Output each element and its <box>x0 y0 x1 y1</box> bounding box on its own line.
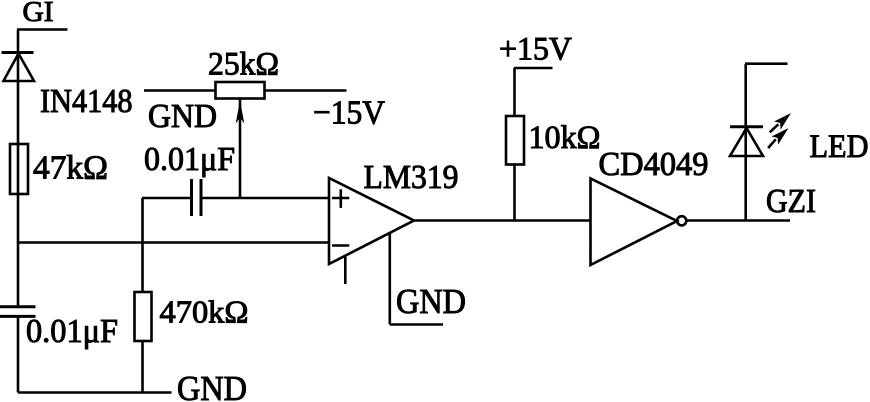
op-amp U1 LM319 <box>329 159 459 264</box>
svg-text:GND: GND <box>177 369 247 402</box>
resistor R1 47k <box>10 144 108 194</box>
wire LED branch <box>744 64 747 221</box>
LED light arrow upper <box>770 113 791 132</box>
wire pot left to GND <box>144 89 216 92</box>
svg-text:LED: LED <box>810 129 869 165</box>
wire pot right to -15V <box>265 89 347 92</box>
op-amp ground pin <box>390 233 466 325</box>
diode D1 IN4148 <box>2 53 133 121</box>
svg-text:−15V: −15V <box>313 95 385 132</box>
wire plus-input right <box>203 197 330 200</box>
inverter U2 CD4049 <box>591 146 709 265</box>
power label +15V <box>499 32 572 69</box>
wire bottom <box>18 391 172 394</box>
wire left rail <box>17 30 20 307</box>
svg-text:10kΩ: 10kΩ <box>529 120 601 156</box>
supply bar <box>745 62 788 65</box>
svg-text:+15V: +15V <box>499 32 572 68</box>
capacitor C2 0.01uF <box>144 141 235 216</box>
svg-text:GZI: GZI <box>766 183 816 220</box>
svg-text:CD4049: CD4049 <box>599 146 709 183</box>
svg-text:0.01μF: 0.01μF <box>144 141 235 178</box>
svg-text:IN4148: IN4148 <box>40 83 133 120</box>
svg-text:25kΩ: 25kΩ <box>208 47 279 83</box>
wire op-amp output <box>414 219 591 222</box>
wire <box>141 341 144 393</box>
svg-text:GND: GND <box>148 98 217 135</box>
node GI <box>17 0 68 30</box>
svg-text:0.01μF: 0.01μF <box>26 313 118 350</box>
svg-text:GND: GND <box>396 282 466 321</box>
wire <box>513 68 516 116</box>
pot wiper arrow <box>236 99 245 198</box>
LED light arrow lower <box>768 128 788 148</box>
wire left rail lower <box>17 316 20 392</box>
resistor R3 10k <box>506 116 601 165</box>
wire feedback vertical <box>141 198 144 292</box>
op-amp V- pin <box>344 256 347 284</box>
svg-text:GI: GI <box>23 0 54 28</box>
wire inverter output <box>686 219 790 222</box>
wire <box>513 165 516 221</box>
wire plus-input left <box>142 197 190 200</box>
capacitor C1 0.01uF <box>0 307 118 350</box>
svg-text:47kΩ: 47kΩ <box>33 150 108 187</box>
resistor R2 470k <box>135 292 249 341</box>
svg-text:470kΩ: 470kΩ <box>160 294 249 330</box>
potentiometer RP 25k <box>208 47 279 99</box>
wire minus-input <box>18 241 329 244</box>
svg-text:LM319: LM319 <box>364 159 459 196</box>
LED D2 <box>730 127 869 165</box>
